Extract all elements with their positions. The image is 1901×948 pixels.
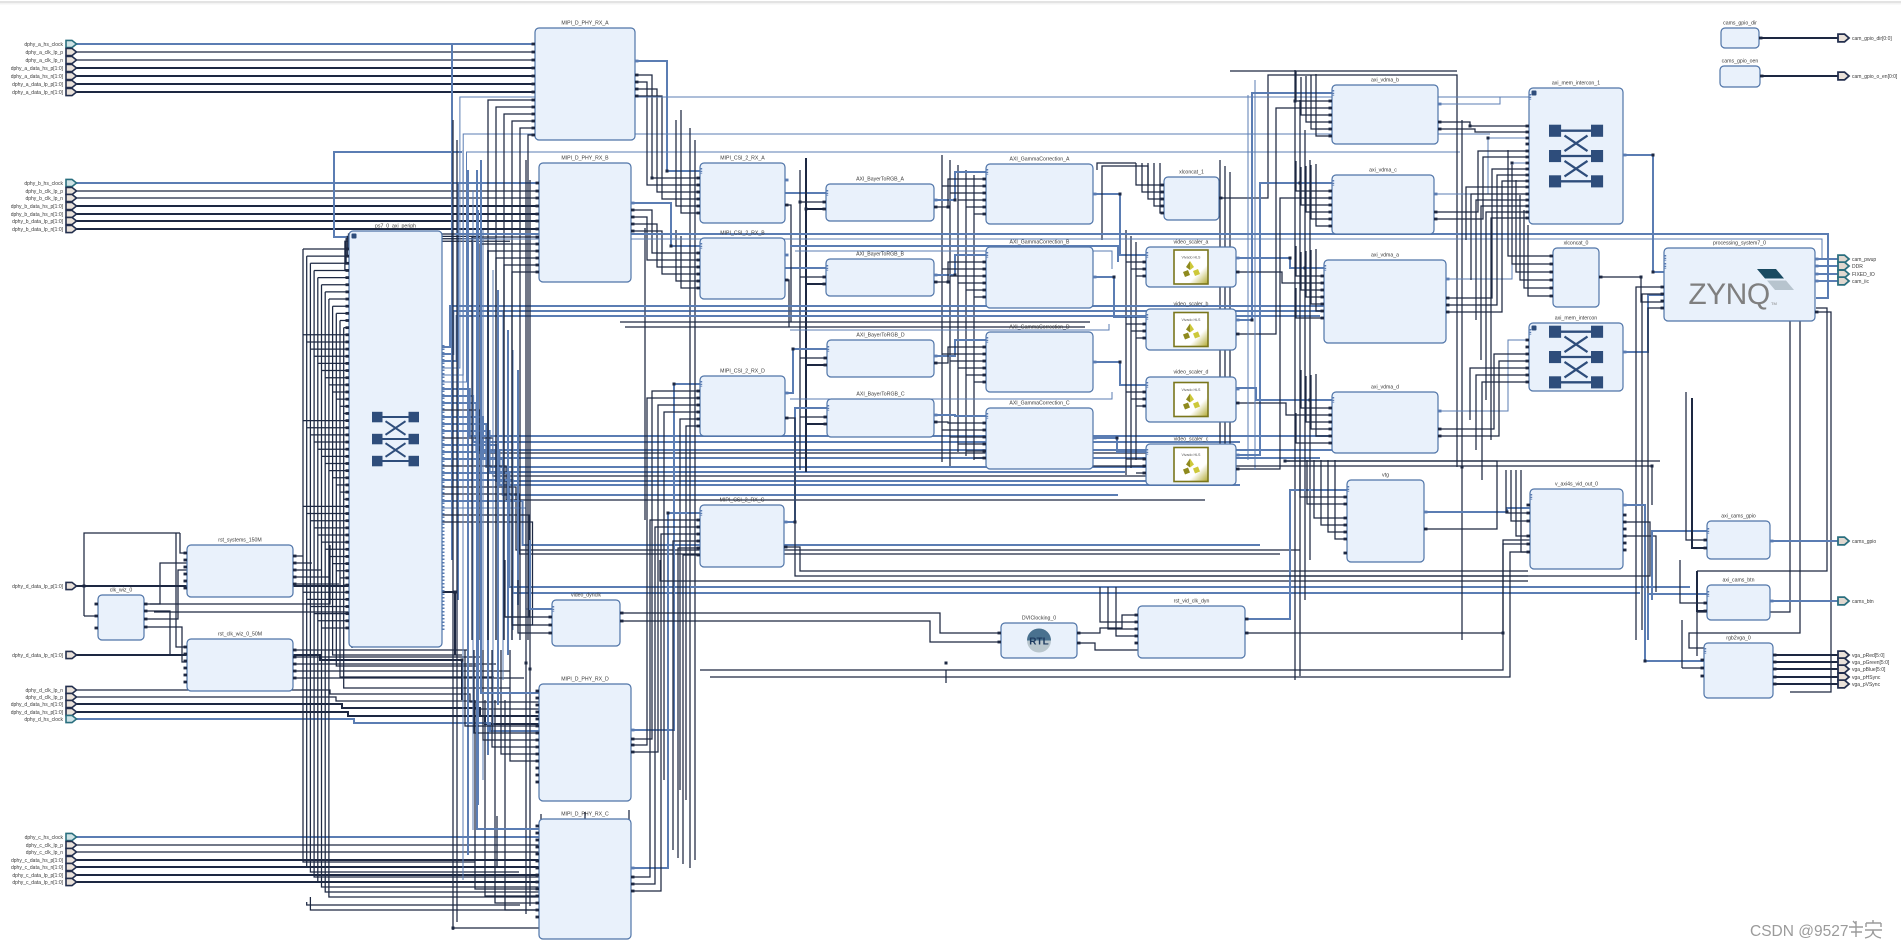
wire RX_B o3 bbox=[631, 224, 700, 267]
junction at 955,200 bbox=[954, 199, 957, 202]
wire to RX_D pin 2 bbox=[483, 650, 539, 740]
block AXI_BayerToRGB_D bbox=[824, 333, 938, 378]
trunk scaler v5 bbox=[1224, 166, 1226, 470]
bus band3 blue1 bbox=[690, 586, 1690, 588]
svg-text:DDR: DDR bbox=[1852, 264, 1863, 270]
svg-text:cam_pwup: cam_pwup bbox=[1852, 257, 1876, 263]
wire rst_clk_wiz out 2 bbox=[293, 663, 496, 665]
trunk blue v8 bbox=[502, 310, 504, 680]
wire Gamma_B c2 bbox=[950, 275, 986, 277]
svg-text:AXI_BayerToRGB_C: AXI_BayerToRGB_C bbox=[856, 392, 904, 398]
wire to CSI_D p5 bbox=[680, 419, 700, 790]
wire Gamma_D c5 bbox=[974, 381, 986, 383]
wire branch clk path bbox=[84, 533, 180, 586]
wire RX_A o3 bbox=[635, 89, 700, 192]
ps7_0_axi_periph right bus-pin dotted column bbox=[443, 345, 445, 630]
svg-text:MIPI_D_PHY_RX_C: MIPI_D_PHY_RX_C bbox=[561, 812, 609, 818]
wire RX_D o1 bbox=[631, 391, 700, 739]
wire vdma feed 6 bbox=[1301, 167, 1332, 205]
trunk channel v1 bbox=[689, 128, 691, 868]
wire ps7_0_axi_periph S pin 2 bbox=[310, 262, 349, 264]
wire scaler_b n bbox=[1236, 108, 1332, 334]
wire comb up 1 bbox=[347, 236, 482, 256]
svg-text:clk_wiz_0: clk_wiz_0 bbox=[110, 588, 133, 594]
block AXI_BayerToRGB_B bbox=[823, 252, 938, 297]
wire vdma_b o2 bbox=[1438, 129, 1529, 132]
wire dphy_a[6] to MIPI_D_PHY_RX_A bbox=[76, 91, 535, 93]
wire ps7_0_axi_periph S pin 51 bbox=[314, 613, 349, 615]
wire comb extra bottom 2 bbox=[310, 897, 545, 910]
svg-text:axi_vdma_c: axi_vdma_c bbox=[1369, 168, 1397, 174]
input port dphy_a_data_hs_p[1:0] bbox=[66, 64, 77, 71]
trunk blue v10 bbox=[512, 350, 514, 630]
svg-text:dphy_a_hs_clock: dphy_a_hs_clock bbox=[24, 42, 63, 48]
wire dphy_c[0] to MIPI_D_PHY_RX_C bbox=[76, 836, 539, 838]
wire dphy_c[6] to MIPI_D_PHY_RX_C bbox=[76, 881, 539, 883]
junction at 1305,268 bbox=[1304, 267, 1307, 270]
wire ps7_0_axi_periph S pin 30 bbox=[325, 463, 349, 465]
svg-text:vga_pRed[5:0]: vga_pRed[5:0] bbox=[1852, 653, 1885, 659]
block AXI_GammaCorrection_A bbox=[983, 157, 1097, 225]
svg-text:AXI_GammaCorrection_A: AXI_GammaCorrection_A bbox=[1010, 157, 1071, 163]
svg-text:dphy_a_clk_lp_n: dphy_a_clk_lp_n bbox=[25, 58, 63, 64]
wire ps7_0_axi_periph S pin 6 bbox=[325, 291, 349, 293]
wire scaler_c aux 9 bbox=[1126, 458, 1146, 460]
input port dphy_c_clk_lp_p bbox=[66, 841, 77, 848]
svg-text:dphy_d_data_hs_n[1:0]: dphy_d_data_hs_n[1:0] bbox=[11, 702, 64, 708]
trunk blue v3 bbox=[477, 210, 479, 805]
bus fclk long 1 bbox=[700, 540, 1530, 670]
trunk blue v0 bbox=[462, 150, 464, 880]
wire CSI_D to Bayer_D bbox=[785, 349, 827, 393]
wire to RX_D pin 0 bbox=[465, 650, 539, 726]
wire cams_gpio_dir out bbox=[1759, 37, 1838, 39]
wire vtg feed 2 bbox=[1314, 460, 1347, 518]
wire PS bottom right 2 bbox=[1697, 308, 1827, 571]
wire rst_vid feed 0 bbox=[1100, 587, 1138, 622]
output port vga_pVSync bbox=[1838, 680, 1849, 688]
wire vga out 4 bbox=[1773, 683, 1838, 685]
wire periph M17 bbox=[442, 466, 1205, 500]
wire vdma feed 8 bbox=[1311, 165, 1332, 219]
wire xlconcat_1 in3 bbox=[1154, 163, 1164, 206]
junction at 1295,101 bbox=[1294, 100, 1297, 103]
wire Gamma_C c3 bbox=[958, 443, 986, 445]
wire vdma_d bus out bbox=[1438, 340, 1529, 411]
svg-text:MIPI_D_PHY_RX_B: MIPI_D_PHY_RX_B bbox=[561, 156, 609, 162]
svg-text:dphy_c_data_lp_p[1:0]: dphy_c_data_lp_p[1:0] bbox=[12, 873, 63, 879]
wire periph M21 bbox=[442, 494, 1280, 554]
wire ps7_0_axi_periph S pin 53 bbox=[322, 627, 350, 629]
svg-text:AXI_GammaCorrection_C: AXI_GammaCorrection_C bbox=[1009, 401, 1070, 407]
wire xlconcat_0 in5 bbox=[1528, 225, 1553, 296]
wire to RX_D pin 3 bbox=[492, 650, 539, 747]
wire comb extra bottom 1 bbox=[307, 902, 520, 905]
wire dphy_b[1] to MIPI_D_PHY_RX_B bbox=[76, 190, 539, 192]
wire ps7_0_axi_periph S pin 8 bbox=[333, 305, 349, 307]
wire ps7_0_axi_periph S pin 38 bbox=[310, 520, 349, 522]
wire cams_gpio out bbox=[1770, 540, 1838, 542]
input port dphy_d_hs_clock bbox=[66, 715, 77, 722]
svg-text:axi_vdma_b: axi_vdma_b bbox=[1371, 78, 1399, 84]
wire Gamma_B c1 bbox=[942, 268, 986, 270]
input port dphy_c_data_lp_n[1:0] bbox=[66, 878, 77, 885]
wire CSI_A aux out bbox=[785, 205, 791, 322]
wire to RX_A pin 2 bbox=[504, 114, 535, 640]
wire ps7_0_axi_periph S pin 42 bbox=[325, 548, 349, 550]
wire ps7_0_axi_periph S pin 1 bbox=[307, 255, 349, 257]
junction at 1645,661 bbox=[1644, 660, 1647, 663]
wire PS feed1 bbox=[1636, 287, 1664, 640]
wire blue to RX_D clk pin bbox=[481, 160, 539, 693]
wire vdma_a o3 bbox=[1446, 181, 1529, 312]
wire Gamma_A c3 bbox=[958, 199, 986, 201]
wire ps7_0_axi_periph S pin 22 bbox=[340, 405, 349, 407]
svg-text:rst_vid_clk_dyn: rst_vid_clk_dyn bbox=[1174, 599, 1210, 605]
wire rst_systems out 4 bbox=[293, 583, 339, 585]
trunk bayer v2 bbox=[805, 158, 807, 472]
wire intercon1 feed 1 bbox=[1471, 194, 1529, 280]
svg-text:CSDN @9527: CSDN @9527 bbox=[1750, 923, 1848, 940]
junction at 1117,438 bbox=[1116, 437, 1119, 440]
bus long top blue bbox=[460, 96, 1533, 98]
wire RX_D o2 bbox=[631, 398, 700, 745]
svg-text:dphy_c_data_hs_p[1:0]: dphy_c_data_hs_p[1:0] bbox=[11, 858, 64, 864]
output port cams_btn bbox=[1838, 597, 1849, 605]
wire to RX_A pin 5 bbox=[528, 135, 535, 640]
wire scaler_b aux 5 bbox=[1136, 337, 1146, 339]
wire ps7_0_axi_periph S pin 36 bbox=[303, 505, 349, 507]
output port cam_iic bbox=[1838, 277, 1849, 285]
bus mid blue 3 bbox=[570, 315, 1295, 317]
svg-text:FIXED_IO: FIXED_IO bbox=[1852, 272, 1875, 278]
wire dphy_b[0] to MIPI_D_PHY_RX_B bbox=[76, 182, 539, 184]
wire ps7_0_axi_periph S pin 44 bbox=[333, 563, 349, 565]
wire vdma feed 16 bbox=[1301, 370, 1332, 408]
bus mid navy 1 bbox=[620, 321, 1090, 323]
wire Gamma_A to scaler_a bbox=[1093, 194, 1146, 255]
input port dphy_d_clk_lp_p bbox=[66, 693, 77, 700]
svg-text:processing_system7_0: processing_system7_0 bbox=[1713, 241, 1766, 247]
block MIPI_D_PHY_RX_A bbox=[532, 21, 639, 141]
wire hs_clock_b branch vertical bbox=[457, 183, 459, 600]
wire scaler_a aux 2 bbox=[1136, 275, 1146, 277]
wire Bayer_D sync bbox=[934, 347, 986, 363]
wire periph M23 bbox=[442, 508, 530, 609]
wire RX_A o2 bbox=[635, 82, 700, 185]
wire xlconcat_1 in4 bbox=[1160, 163, 1164, 213]
wire to CSI_D p6 bbox=[686, 426, 700, 800]
bus row_b video pair bbox=[790, 324, 1109, 330]
block rst_systems_150M bbox=[184, 538, 297, 598]
wire intercon feed 1 bbox=[1476, 375, 1529, 450]
junction at 1512,163 bbox=[1511, 162, 1514, 165]
wire xlconcat_1 in2 bbox=[1148, 163, 1164, 199]
trunk vdma v4 bbox=[1309, 160, 1311, 560]
bus navy under vdma_d bbox=[1285, 466, 1652, 505]
wire periph M18 bbox=[442, 473, 690, 587]
wire to CSI_D p4 bbox=[664, 412, 700, 780]
trunk blue v9 bbox=[507, 330, 509, 655]
wire RX_A o1 bbox=[635, 75, 700, 178]
wire scaler_a aux 0 bbox=[1126, 261, 1146, 263]
junction at 1653,155 bbox=[1652, 154, 1655, 157]
wire vdma feed 0 bbox=[1296, 71, 1332, 101]
wire dphy_c[4] to MIPI_D_PHY_RX_C bbox=[76, 866, 539, 868]
wire periph M04 bbox=[442, 134, 1490, 375]
svg-text:AXI_BayerToRGB_A: AXI_BayerToRGB_A bbox=[856, 177, 904, 183]
wire dphy_d[1] to MIPI_D_PHY_RX_D bbox=[76, 697, 539, 709]
block v_axi4s_vid_out_0 bbox=[1527, 482, 1627, 570]
input port dphy_c_hs_clock bbox=[66, 833, 77, 840]
wire comb up 0 bbox=[349, 234, 469, 249]
wire to CSI_B p5 bbox=[676, 230, 700, 281]
block axi_mem_intercon_1 bbox=[1526, 81, 1627, 225]
stub bbox=[945, 670, 947, 683]
wire to RX_B pin 2 bbox=[488, 251, 539, 640]
trunk gamma v5 bbox=[973, 175, 975, 460]
bus fclk long 2 bbox=[710, 552, 1530, 677]
trunk vdma v2 bbox=[1299, 100, 1301, 676]
svg-text:dphy_d_clk_lp_n: dphy_d_clk_lp_n bbox=[25, 688, 63, 694]
wire ps7_0_axi_periph S pin 7 bbox=[329, 298, 349, 300]
svg-text:dphy_c_data_hs_n[1:0]: dphy_c_data_hs_n[1:0] bbox=[11, 865, 64, 871]
block xlconcat_1 bbox=[1161, 170, 1223, 221]
wire dphy_d[0] to MIPI_D_PHY_RX_D bbox=[76, 690, 539, 702]
junction at 1114,277 bbox=[1113, 276, 1116, 279]
wire RX_B o2 bbox=[631, 217, 700, 260]
wire rst_clk_wiz out 1 bbox=[293, 656, 482, 658]
input port dphy_b_clk_lp_p bbox=[66, 187, 77, 194]
wire dphy_b[6] to MIPI_D_PHY_RX_B bbox=[76, 228, 539, 230]
svg-text:dphy_b_data_lp_p[1:0]: dphy_b_data_lp_p[1:0] bbox=[12, 219, 63, 225]
wire PS cam_pwup bbox=[1816, 258, 1840, 260]
block rst_vid_clk_dyn bbox=[1135, 599, 1249, 659]
wire intercon1 feed 0 bbox=[1466, 187, 1529, 240]
wire RX_A o4 bbox=[635, 96, 700, 199]
wire scaler_b to vdma_b bbox=[1236, 93, 1332, 320]
svg-text:dphy_c_clk_lp_n: dphy_c_clk_lp_n bbox=[26, 850, 63, 856]
wire Bayer_B sync bbox=[934, 262, 986, 282]
block video_dynclk bbox=[549, 593, 624, 647]
input port dphy_b_data_hs_p[1:0] bbox=[66, 202, 77, 209]
wire PS DDR bbox=[1816, 265, 1840, 267]
bus band3 0 from CSI_C bbox=[784, 547, 1528, 571]
wire vtg feed 5 bbox=[1335, 460, 1347, 539]
block MIPI_CSI_2_RX_B bbox=[697, 231, 789, 300]
wire Bayer_C rst bbox=[800, 416, 827, 418]
wire Gamma_D c1 bbox=[942, 353, 986, 355]
junction at 1290,258 bbox=[1289, 257, 1292, 260]
wire ps7_0_axi_periph S pin 40 bbox=[318, 534, 349, 536]
wire ps7_0_axi_periph S pin 12 bbox=[303, 334, 349, 336]
svg-text:MIPI_D_PHY_RX_A: MIPI_D_PHY_RX_A bbox=[561, 21, 609, 27]
wire ps7_0_axi_periph S pin 18 bbox=[325, 377, 349, 379]
wire cams_btn out bbox=[1770, 600, 1838, 602]
wire RX_A video to CSI_A bbox=[635, 61, 700, 171]
wire Bayer_B clk2 bbox=[806, 283, 826, 285]
block axi_mem_intercon bbox=[1526, 316, 1627, 392]
wire xlconcat_0 in2 bbox=[1516, 180, 1553, 272]
block cams_gpio_dir bbox=[1721, 21, 1763, 49]
trunk gamma v3 bbox=[957, 165, 959, 452]
wire ps7_0_axi_periph S pin 14 bbox=[310, 348, 349, 350]
wire comb trunk 9 to mid bus bbox=[336, 313, 478, 666]
wire rst_clk_wiz out 4 bbox=[293, 677, 524, 679]
wire to RX_D pin 5 bbox=[510, 650, 539, 761]
wire comb trunk 2 to bottom bus bbox=[310, 263, 519, 872]
trunk scaler v1 bbox=[1125, 230, 1127, 475]
wire dphy_d_data_lp_p bbox=[76, 586, 455, 655]
junction at 667,171 bbox=[666, 170, 669, 173]
wire scaler_d to vdma_d bbox=[1236, 388, 1332, 400]
output port cam_gpio_o_en[0:0] bbox=[1838, 72, 1849, 80]
wire dphy_b[4] to MIPI_D_PHY_RX_B bbox=[76, 213, 539, 215]
wire intercon M00 to PS bbox=[1623, 295, 1664, 352]
wire Gamma_D c2 bbox=[950, 360, 986, 362]
wire periph M20 bbox=[442, 487, 1300, 550]
wire to video_dynclk clk bbox=[530, 540, 552, 609]
input port dphy_a_clk_lp_p bbox=[66, 48, 77, 55]
wire to RX_C pin 0 bbox=[475, 700, 539, 889]
junction at 1653,272 bbox=[1652, 271, 1655, 274]
wire ps7_0_axi_periph S pin 32 bbox=[333, 477, 349, 479]
svg-text:dphy_a_clk_lp_p: dphy_a_clk_lp_p bbox=[25, 50, 63, 56]
trunk blue v7 bbox=[497, 290, 499, 705]
wire cams_gpio feed 0 bbox=[1686, 392, 1707, 540]
svg-text:v_axi4s_vid_out_0: v_axi4s_vid_out_0 bbox=[1555, 482, 1598, 488]
svg-text:cam_gpio_o_en[0:0]: cam_gpio_o_en[0:0] bbox=[1852, 74, 1898, 80]
wire vdma feed 20 bbox=[1296, 413, 1332, 443]
junction at 453,928 bbox=[452, 927, 455, 930]
wire intercon1 feed 2 bbox=[1476, 200, 1529, 320]
wire vdma_a bus out bbox=[1446, 163, 1529, 279]
block MIPI_CSI_2_RX_A bbox=[697, 156, 789, 224]
wire comb trunk 4 to bottom bus bbox=[318, 278, 563, 882]
wire ps7_0_axi_periph S pin 25 bbox=[307, 427, 349, 429]
wire ps7_0_axi_periph S pin 13 bbox=[307, 341, 349, 343]
wire dynclk to DVIClocking2 bbox=[620, 621, 1001, 642]
wire rgb2vga feed2 bbox=[1682, 667, 1704, 669]
svg-text:dphy_c_hs_clock: dphy_c_hs_clock bbox=[25, 835, 64, 841]
trunk blue v4 bbox=[482, 230, 484, 780]
wire Gamma_A c5 bbox=[974, 213, 986, 215]
trunk bayer v1 bbox=[799, 170, 801, 470]
block AXI_GammaCorrection_B bbox=[983, 240, 1097, 309]
wire vdma feed 12 bbox=[1306, 251, 1324, 297]
trunk blue v5 bbox=[487, 250, 489, 755]
block cams_gpio_oen bbox=[1720, 59, 1764, 88]
input port dphy_c_data_lp_p[1:0] bbox=[66, 871, 77, 878]
svg-text:axi_mem_intercon_1: axi_mem_intercon_1 bbox=[1552, 81, 1600, 87]
wire to RX_D pin 1 bbox=[474, 650, 539, 733]
wire DVI to rst_vid2 bbox=[1077, 643, 1138, 650]
svg-text:rst_systems_150M: rst_systems_150M bbox=[218, 538, 262, 544]
top toolbar shadow bbox=[0, 0, 1901, 1]
svg-text:axi_vdma_d: axi_vdma_d bbox=[1371, 385, 1399, 391]
block video_scaler_a bbox=[1143, 240, 1240, 288]
block axi_vdma_a bbox=[1321, 253, 1450, 344]
wire cams_btn feed 0 bbox=[1680, 560, 1707, 603]
wire RX_D video to CSI_D bbox=[631, 384, 700, 730]
wire Bayer_D clk2 bbox=[806, 364, 827, 366]
wire vdma feed 10 bbox=[1296, 246, 1324, 276]
wire scaler_d aux 8 bbox=[1136, 405, 1146, 407]
wire CSI_B aux out bbox=[785, 280, 789, 327]
wire ps7_0_axi_periph S pin 48 bbox=[303, 591, 349, 593]
svg-text:dphy_b_clk_lp_n: dphy_b_clk_lp_n bbox=[25, 196, 63, 202]
input port dphy_d_data_lp_p[1:0] bbox=[66, 582, 77, 589]
output port vga_pHSync bbox=[1838, 673, 1849, 681]
wire Bayer_B to Gamma_B bbox=[934, 255, 986, 275]
trunk navy v1 bbox=[456, 140, 458, 922]
svg-text:cams_gpio_oen: cams_gpio_oen bbox=[1722, 59, 1759, 65]
svg-text:dphy_c_clk_lp_p: dphy_c_clk_lp_p bbox=[26, 843, 63, 849]
junction at 526,663 bbox=[525, 662, 528, 665]
junction at 1120,362 bbox=[1119, 361, 1122, 364]
junction at 806,209 bbox=[805, 208, 808, 211]
wire Gamma_A c2 bbox=[950, 192, 986, 194]
wire Gamma_C c2 bbox=[950, 436, 986, 438]
wire Gamma_A c4 bbox=[966, 206, 986, 208]
wire dphy_b[2] to MIPI_D_PHY_RX_B bbox=[76, 197, 539, 199]
wire comb trunk 1 to bottom bus bbox=[307, 256, 497, 867]
wire RX_B o1 bbox=[631, 210, 700, 253]
wire scaler_c n bbox=[1236, 198, 1332, 469]
wire vdma_a o2 bbox=[1446, 175, 1529, 305]
svg-text:dphy_d_hs_clock: dphy_d_hs_clock bbox=[24, 717, 63, 723]
wire to RX_A pin 0 bbox=[488, 100, 535, 640]
input port dphy_c_data_hs_p[1:0] bbox=[66, 856, 77, 863]
wire scaler_a to vdma_a bbox=[1236, 258, 1324, 268]
wire dphy_a[0] to MIPI_D_PHY_RX_A bbox=[76, 43, 535, 45]
wire dphy_b[3] to MIPI_D_PHY_RX_B bbox=[76, 205, 539, 207]
wire vdma feed 11 bbox=[1301, 252, 1324, 290]
wire Gamma_C c1 bbox=[942, 429, 986, 431]
wire cams_gpio feed 1 bbox=[1692, 398, 1707, 548]
wire vdma feed 4 bbox=[1316, 74, 1332, 136]
wire xlconcat_1 in0 bbox=[1136, 163, 1164, 185]
wire ps7_0_axi_periph S pin 10 bbox=[340, 320, 349, 322]
junction at 946,663 bbox=[945, 662, 948, 665]
wire ps7_0_axi_periph S pin 28 bbox=[318, 448, 349, 450]
bus row_a video pair 1 bbox=[790, 246, 1118, 262]
wire to RX_B pin 5 bbox=[512, 272, 539, 640]
wire ps7_0_axi_periph S pin 37 bbox=[307, 513, 349, 515]
wire hs_clock_a branch vertical bbox=[451, 44, 453, 560]
wire xlconcat_1 out bbox=[1219, 75, 1457, 467]
wire Bayer_A to Gamma_A bbox=[934, 172, 986, 200]
wire Bayer_C to Gamma_C bbox=[934, 415, 986, 416]
input port dphy_b_data_hs_n[1:0] bbox=[66, 210, 77, 217]
block video_scaler_c bbox=[1143, 437, 1240, 486]
wire scaler_c to vdma_c bbox=[1236, 183, 1332, 455]
input port dphy_a_hs_clock bbox=[66, 40, 77, 47]
wire vdma_b o1 bbox=[1438, 122, 1529, 126]
trunk gamma v1 bbox=[941, 155, 943, 462]
input port dphy_d_data_lp_n[1:0] bbox=[66, 651, 77, 658]
wire vdma_b bus out bbox=[1438, 97, 1529, 104]
wire rst_vid feed 1 bbox=[1108, 587, 1138, 629]
block clk_wiz_0 bbox=[95, 588, 148, 641]
wire v_axi4s feed 0 bbox=[1506, 470, 1530, 513]
svg-text:Vivado HLS: Vivado HLS bbox=[1182, 453, 1202, 457]
wire dphy_c[3] to MIPI_D_PHY_RX_C bbox=[76, 859, 539, 861]
wire cams_btn feed 1 bbox=[1697, 571, 1707, 611]
wire dphy_d[4] to MIPI_D_PHY_RX_D bbox=[76, 719, 539, 731]
wire vdma feed 13 bbox=[1311, 250, 1324, 304]
wire dphy_d[2] to MIPI_D_PHY_RX_D bbox=[76, 704, 539, 716]
